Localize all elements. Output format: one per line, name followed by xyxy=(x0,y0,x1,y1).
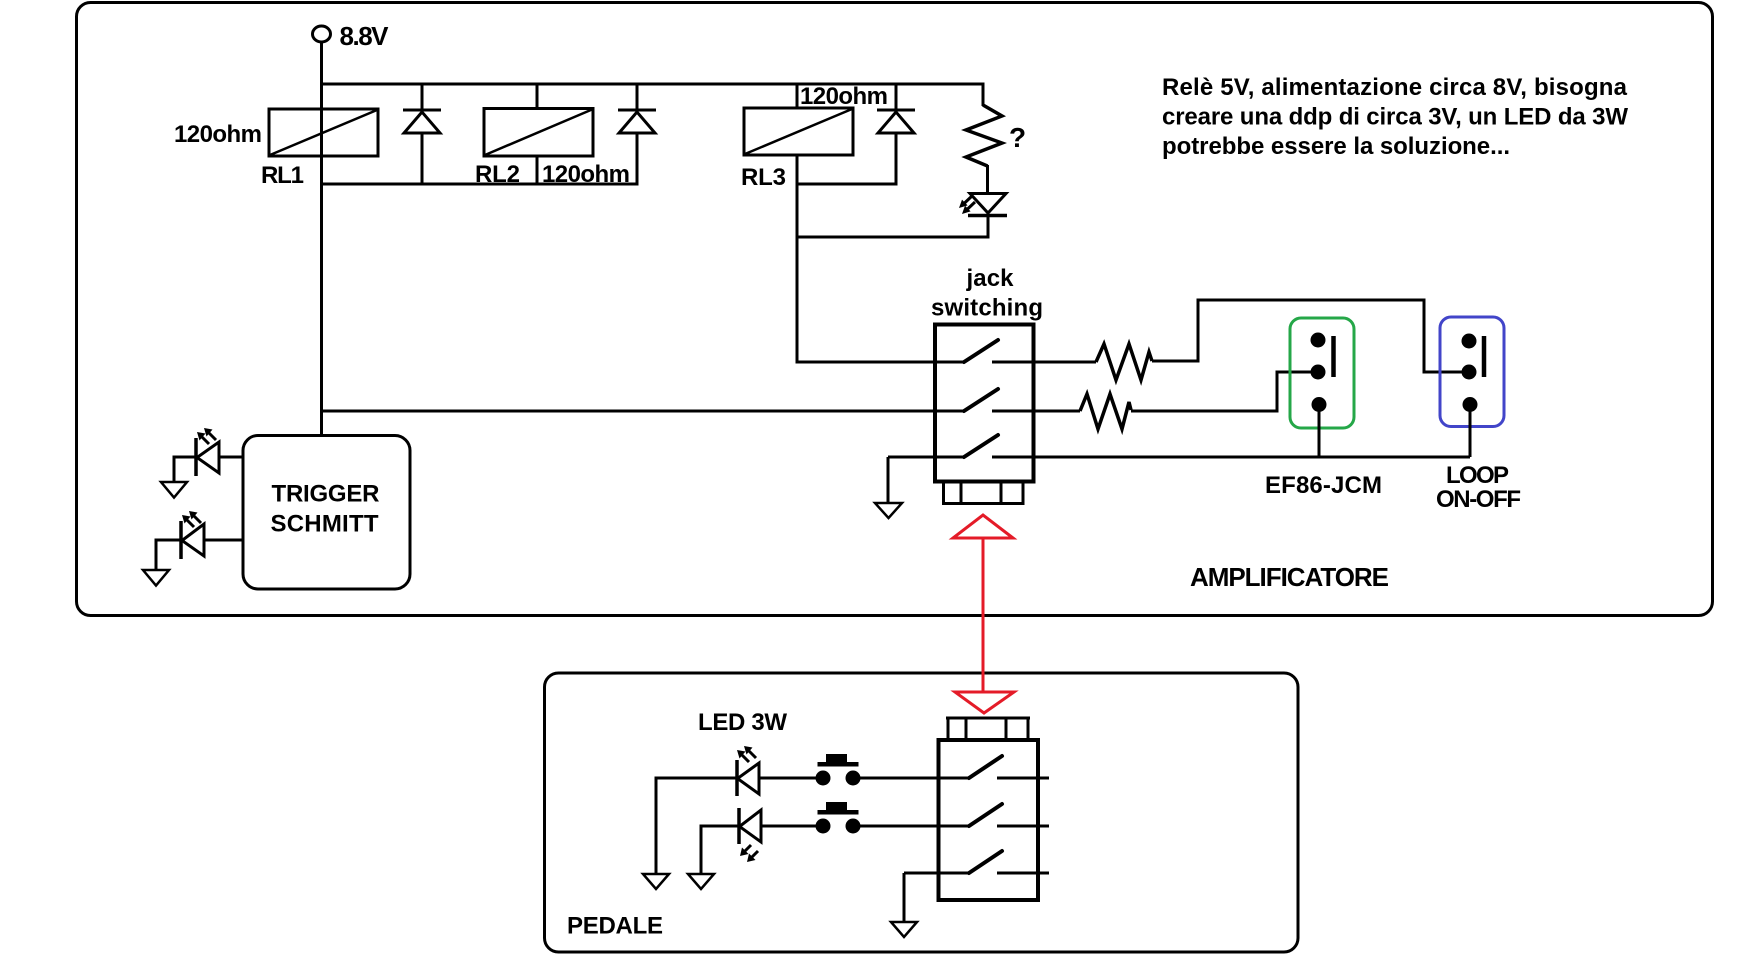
svg-text:EF86-JCM: EF86-JCM xyxy=(1265,472,1382,499)
wire: drop to RL2 coil xyxy=(536,84,539,109)
switch SW1 EF86-JCM (green) xyxy=(1290,318,1354,428)
ground (DL3) xyxy=(143,570,169,586)
red link arrow (amp side head) xyxy=(953,515,1013,538)
J2 switch lever row3 xyxy=(969,851,1002,873)
wire: R1 to LOOP switch xyxy=(1152,300,1464,372)
terminal 8.8V xyxy=(313,26,331,42)
svg-text:switching: switching xyxy=(931,295,1043,322)
wire: drop to D1 xyxy=(421,84,424,110)
wire: J1 row1 contact to R1 xyxy=(992,361,1096,364)
pushbutton S2 xyxy=(816,802,861,834)
wire: 8.8V vertical bus x=321.5 xyxy=(320,42,323,436)
pushbutton S1 xyxy=(816,754,861,786)
J2 switch lever row1 xyxy=(969,756,1002,778)
ground (DL2) xyxy=(161,482,187,498)
trigger schmitt box U1 xyxy=(243,436,410,590)
wire: drop to D3 xyxy=(895,84,898,110)
svg-text:AMPLIFICATORE: AMPLIFICATORE xyxy=(1190,562,1389,592)
diode D1 xyxy=(403,110,441,184)
svg-text:jack: jack xyxy=(966,265,1015,292)
wire: J2 row2 from button S2 xyxy=(853,825,969,828)
J2 sleeve pins xyxy=(946,718,1030,740)
resistor R1 xyxy=(1096,344,1152,380)
J1 switch lever row1 xyxy=(964,340,998,362)
J1 sleeve pins xyxy=(942,481,1025,504)
svg-text:?: ? xyxy=(1009,122,1026,153)
jack switching J2 body (pedal) xyxy=(939,740,1039,900)
svg-text:potrebbe essere la soluzione..: potrebbe essere la soluzione... xyxy=(1162,133,1510,160)
wire: RL2 coil bottom drop xyxy=(536,156,539,184)
LED DL3 (trigger out 2) xyxy=(181,511,244,559)
wire: drop to D2 xyxy=(636,84,639,110)
svg-text:Relè 5V, alimentazione circa 8: Relè 5V, alimentazione circa 8V, bisogna xyxy=(1162,74,1628,101)
svg-text:8.8V: 8.8V xyxy=(340,21,390,51)
wire: J1 row2 contact to R2 xyxy=(992,410,1080,413)
svg-text:120ohm: 120ohm xyxy=(800,83,888,110)
LED DL1 (panel) xyxy=(959,194,1007,216)
wire: J1 ground drop xyxy=(887,457,890,503)
LED DL5 (pedal 2) xyxy=(739,808,825,862)
ground (J1) xyxy=(875,503,902,518)
wire: LED return y=237 xyxy=(797,236,988,239)
svg-text:LOOP: LOOP xyxy=(1446,462,1509,489)
relay RL2 xyxy=(484,109,593,157)
wire: SW2 common to row3 bus xyxy=(1469,405,1472,458)
wire: DL2 cathode to ground xyxy=(174,457,196,482)
pedal enclosure xyxy=(545,673,1299,952)
svg-text:RL1: RL1 xyxy=(261,162,304,189)
svg-text:120ohm: 120ohm xyxy=(174,121,262,148)
wire: J2 row3 contact stub xyxy=(997,872,1049,875)
resistor R2 xyxy=(1080,394,1131,429)
wire: J2 row2 contact stub xyxy=(997,825,1049,828)
wire: J1 row3 input from ground xyxy=(888,456,964,459)
svg-text:PEDALE: PEDALE xyxy=(567,913,663,940)
resistor R? (unknown, vertical) xyxy=(966,84,1002,195)
svg-text:TRIGGER: TRIGGER xyxy=(272,481,380,508)
wire: J2 row3 from ground xyxy=(904,872,969,875)
LED DL2 (trigger out 1) xyxy=(196,428,244,476)
J2 switch lever row2 xyxy=(969,804,1002,826)
wire: RL3 bottom vertical x=797 xyxy=(796,155,799,364)
svg-text:RL3: RL3 xyxy=(741,164,786,191)
diode D3 xyxy=(877,110,915,184)
wire: top supply rail y=84 xyxy=(320,83,985,86)
red link arrow shaft xyxy=(982,538,985,691)
J1 switch lever row2 xyxy=(964,389,998,411)
ground (DL5) xyxy=(688,874,714,889)
wire: SW1 common to row3 bus xyxy=(1318,405,1321,458)
wire: DL4 cathode to ground xyxy=(656,778,737,874)
wire: DL5 cathode to ground xyxy=(701,826,739,874)
wire: DL3 cathode to ground xyxy=(156,540,181,570)
wire: R2 to EF86-JCM switch xyxy=(1131,372,1312,411)
svg-text:LED 3W: LED 3W xyxy=(698,709,787,736)
svg-text:ON-OFF: ON-OFF xyxy=(1436,486,1521,513)
red link arrow (pedal side head) xyxy=(955,692,1014,713)
jack switching J1 body xyxy=(935,325,1034,482)
switch SW2 LOOP ON-OFF (blue) xyxy=(1440,317,1504,427)
wire: RL3 coil return y=184 xyxy=(797,183,898,186)
diode D2 xyxy=(618,110,656,184)
wire: coil return RL1/RL2 y=184 xyxy=(320,183,639,186)
ground (J2) xyxy=(891,922,917,937)
wire: J2 row1 contact stub xyxy=(997,777,1049,780)
svg-text:SCHMITT: SCHMITT xyxy=(271,511,379,538)
label jack switching xyxy=(931,265,1043,322)
wire: drop to RL3 coil xyxy=(796,84,799,109)
wire: J2 ground drop xyxy=(903,873,906,922)
J1 switch lever row3 xyxy=(964,435,998,457)
relay RL1 xyxy=(269,109,378,156)
wire: J2 row1 from button S1 xyxy=(853,777,969,780)
LED DL4 (pedal 1) xyxy=(737,746,825,796)
wire: J1 row3 contact bus to switches xyxy=(992,456,1470,459)
wire: J1 row2 input from trigger bus xyxy=(322,410,965,413)
wire: J1 row1 input from RL3 xyxy=(797,361,964,364)
relay RL3 xyxy=(744,108,853,155)
wire: LED cathode drop x=988 xyxy=(987,215,990,239)
note text relay xyxy=(1162,74,1628,160)
ground (DL4) xyxy=(643,874,669,889)
amplifier enclosure xyxy=(77,3,1713,616)
svg-text:creare una ddp di circa 3V, un: creare una ddp di circa 3V, un LED da 3W xyxy=(1162,104,1628,131)
